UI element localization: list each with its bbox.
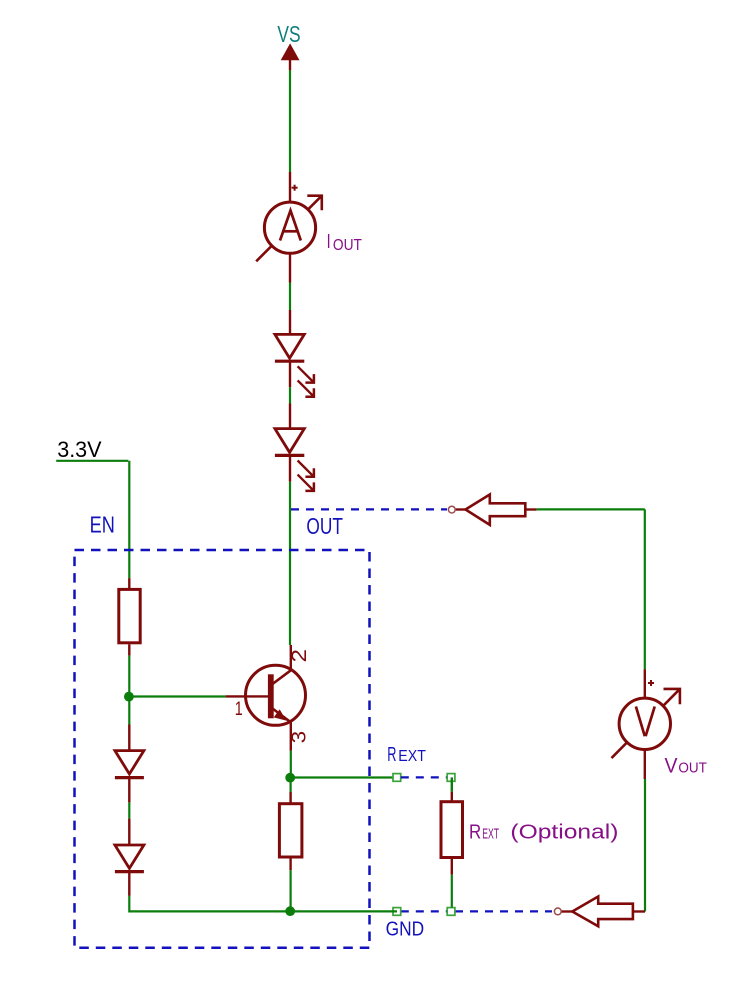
svg-text:3: 3 [289,731,311,744]
dashed line REXT [401,776,447,778]
ammeter U2 [256,172,322,283]
wire end square REXT left [393,774,401,782]
svg-text:OUT: OUT [678,761,707,777]
wire end square REXT right [447,774,455,782]
wire D5 to bottom rail [129,896,290,912]
LED D2 [275,310,314,397]
label REXT internal [387,744,426,766]
wire emitter to junction REXT [290,751,292,778]
label REXT (Optional) [469,821,618,843]
LED D3 [275,404,314,491]
svg-text:R: R [469,821,481,843]
dashed line GND right [455,910,552,912]
wire 3.3V down to R1 [128,461,130,578]
wire junction to diode D4 [128,697,130,725]
wire base [129,695,226,697]
junction GND node [285,906,295,916]
wire bottom rail to square [290,910,397,912]
svg-text:1: 1 [235,699,243,720]
wire down to voltmeter [644,509,646,669]
voltmeter U3 [612,669,680,779]
power symbol VS arrow [281,43,300,70]
pin circle GND [554,908,561,915]
svg-text:EN: EN [90,511,115,537]
wire R1 to junction [128,656,130,697]
junction REXT node [285,773,295,783]
svg-text:VS: VS [277,21,300,47]
svg-text:R: R [387,744,396,766]
junction base node [124,692,134,702]
wire OUT arrow to voltmeter corner [537,508,645,510]
dashed module box [75,550,370,948]
wire end square GND left [393,908,401,916]
sheet pin arrow OUT [456,495,537,525]
svg-text:EXT: EXT [398,748,426,765]
svg-text:OUT: OUT [306,513,343,539]
wire D4 to D5 [128,802,130,818]
svg-text:OUT: OUT [333,237,362,254]
svg-text:GND: GND [386,918,425,941]
label VOUT [665,755,707,778]
svg-text:2: 2 [288,649,311,663]
resistor REXT optional [441,777,463,907]
svg-text:EXT: EXT [482,826,499,842]
resistor R1 [119,578,140,656]
svg-text:(Optional): (Optional) [510,821,618,843]
resistor R2 internal [279,779,302,908]
diode D5 [115,819,144,896]
dashed line GND between squares [401,910,447,912]
svg-text:V: V [665,755,678,778]
sheet pin arrow GND [562,897,633,927]
transistor Q1 [226,645,306,751]
wire voltmeter to GND rail [644,779,646,912]
wire D2 to LED D3 [289,387,291,403]
node OUT dashed line [291,508,447,510]
svg-text:3.3V: 3.3V [57,437,102,462]
wire ammeter to LED D2 [289,283,291,311]
wire VS to ammeter [289,70,291,172]
label IOUT [327,230,362,254]
stub to GND arrow [633,910,645,912]
pin circle OUT arrow [448,506,455,513]
wire D3 to transistor collector (node OUT) [289,482,291,645]
svg-text:I: I [327,230,331,253]
wire REXT node horizontal [290,776,393,778]
wire 3.3V horizontal [56,460,128,462]
wire end square GND right [447,908,455,916]
diode D4 [115,725,144,803]
